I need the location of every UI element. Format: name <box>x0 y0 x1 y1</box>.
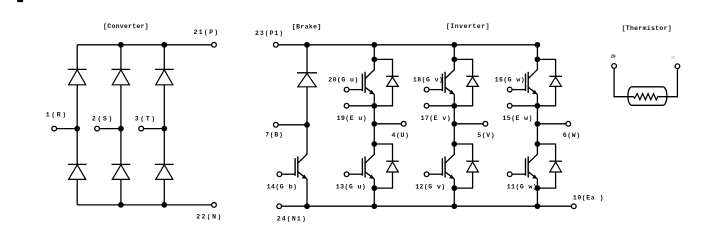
svg-text:19(E u): 19(E u) <box>337 115 367 122</box>
lower IGBT QV2 collector <box>445 144 454 163</box>
lower IGBT QW2 gate bar <box>525 158 527 176</box>
converter bottom bus wire (N) <box>77 204 211 206</box>
upper IGBT QW1 emitter stub <box>536 94 538 106</box>
svg-text:30: 30 <box>670 55 675 61</box>
svg-text:23(P1): 23(P1) <box>255 30 284 37</box>
terminal 10(Ea) <box>571 204 576 209</box>
terminal 13(G u) gate <box>344 172 349 177</box>
terminal 16(G w) gate <box>507 87 512 92</box>
upper IGBT QW1 gate bar <box>525 74 527 92</box>
upper IGBT QV1 emitter stub <box>453 94 455 106</box>
terminal 2(S) <box>95 126 100 131</box>
upper IGBT QV1 emitter arrow <box>449 90 454 94</box>
thermistor case outline <box>631 86 663 88</box>
wire lower gate lead leg 3 <box>512 173 525 175</box>
svg-text:22(N): 22(N) <box>196 214 223 221</box>
lower freewheel diode DW2 <box>549 161 562 172</box>
terminal 4(U) <box>401 121 406 126</box>
node dot B <box>304 122 310 128</box>
converter bottom diode D5 <box>112 164 131 179</box>
lower IGBT QV2 gate bar <box>441 158 443 176</box>
inverter leg 3 collector wire top <box>536 45 538 60</box>
upper IGBT QV1 emitter <box>445 87 454 94</box>
terminal 19(E u) emitter <box>344 103 349 108</box>
terminal 15(E w) emitter <box>507 103 512 108</box>
junction dot leg 1 lower collector node <box>371 141 377 147</box>
svg-text:7(B): 7(B) <box>265 132 283 139</box>
junction dot leg 2 lower emitter node <box>451 185 457 191</box>
wire brake gate lead <box>282 173 295 175</box>
junction dot leg 1 upper emitter node <box>371 103 377 109</box>
inverter leg 1 bottom wire <box>373 188 375 206</box>
terminal 11(G w) gate <box>507 172 512 177</box>
svg-text:10(Ea ): 10(Ea ) <box>573 195 604 202</box>
junction dot leg 1 lower emitter node <box>371 185 377 191</box>
wire upper gate lead leg 1 <box>349 89 362 91</box>
leg 3 upper diode branch wire <box>537 59 555 105</box>
svg-text:20(G u): 20(G u) <box>328 77 358 84</box>
lower IGBT QU2 collector <box>365 144 374 163</box>
lower IGBT QU2 emitter arrow <box>369 175 374 179</box>
lower freewheel diode DU2 <box>386 161 399 172</box>
terminal 18(G v) gate <box>424 87 429 92</box>
thermistor resistive element R(th) <box>634 94 659 100</box>
inverter leg 1 collector wire top <box>373 45 375 60</box>
terminal thermistor right <box>675 64 680 69</box>
junction dot leg 3 upper collector node <box>535 57 541 63</box>
junction dot leg 3 top bus <box>161 42 167 48</box>
inverter leg 3 mid wire <box>536 106 538 144</box>
brake diode <box>297 73 317 87</box>
terminal 12(G v) gate <box>424 172 429 177</box>
upper IGBT QU1 gate bar <box>361 74 363 92</box>
junction dot leg 1 bottom bus <box>371 203 377 209</box>
junction dot brake leg top <box>304 42 310 48</box>
lower IGBT QW2 emitter arrow <box>532 175 537 179</box>
junction dot leg 3 output node <box>535 121 541 127</box>
converter top diode D2 <box>112 69 131 84</box>
lower IGBT QU2 emitter stub <box>373 179 375 188</box>
svg-text:15(E w): 15(E w) <box>502 115 532 122</box>
upper IGBT QU1 emitter <box>365 87 374 94</box>
junction dot leg 1 upper collector node <box>371 57 377 63</box>
wire lower gate lead leg 1 <box>349 173 362 175</box>
converter top bus wire (P) <box>77 44 211 46</box>
lower IGBT QW2 emitter <box>528 172 537 179</box>
brake IGBT emitter arrow <box>302 175 307 179</box>
junction dot leg 2 bottom bus <box>451 203 457 209</box>
svg-text:12(G v): 12(G v) <box>415 184 445 191</box>
junction dot leg 2 upper emitter node <box>451 103 457 109</box>
svg-text:[Thermistor]: [Thermistor] <box>622 25 672 32</box>
lower IGBT QW2 emitter stub <box>536 179 538 188</box>
wire output node to terminal 6(W) <box>537 123 566 125</box>
terminal 21(P) <box>212 42 217 47</box>
junction dot leg 2 upper collector node <box>451 57 457 63</box>
svg-text:[Brake]: [Brake] <box>292 23 322 30</box>
upper IGBT QV1 collector <box>445 59 454 78</box>
leg 2 lower diode branch wire <box>454 144 472 188</box>
leg 1 upper diode branch wire <box>374 59 392 105</box>
converter top diode D1 <box>68 69 87 84</box>
upper IGBT QW1 emitter <box>528 87 537 94</box>
svg-text:4(U): 4(U) <box>392 132 410 139</box>
wire input 1(R) to leg 1 <box>57 128 78 130</box>
wire upper gate lead leg 3 <box>512 89 525 91</box>
svg-text:21(P): 21(P) <box>194 29 220 36</box>
brake IGBT gate bar <box>294 158 296 176</box>
junction dot leg 1 output node <box>371 121 377 127</box>
inverter leg 2 mid wire <box>453 106 455 144</box>
upper IGBT QV1 gate bar <box>441 74 443 92</box>
junction dot inverter leg 1 top bus <box>371 42 377 48</box>
brake leg upper wire <box>306 45 308 125</box>
upper IGBT QU1 body bar <box>364 72 366 93</box>
inverter leg 2 collector wire top <box>453 45 455 60</box>
svg-text:24(N1): 24(N1) <box>277 216 307 223</box>
wire input 2(S) to leg 2 <box>99 128 120 130</box>
terminal 17(E v) emitter <box>424 103 429 108</box>
inverter top bus wire (P1) <box>278 44 537 46</box>
leg 2 upper diode branch wire <box>454 59 472 105</box>
lower IGBT QW2 collector <box>528 144 537 163</box>
inverter leg 2 bottom wire <box>453 188 455 206</box>
upper IGBT QU1 emitter arrow <box>369 90 374 94</box>
thermistor left lead wire <box>614 68 634 96</box>
junction dot leg 2 output node <box>451 121 457 127</box>
lower IGBT QW2 body bar <box>527 156 529 177</box>
lower IGBT QV2 body bar <box>444 156 446 177</box>
terminal 22(N) <box>212 203 217 208</box>
converter bottom diode D4 <box>68 164 87 179</box>
svg-text:17(E v): 17(E v) <box>421 115 451 122</box>
lower IGBT QU2 gate bar <box>361 158 363 176</box>
converter bottom diode D6 <box>155 164 174 179</box>
terminal 5(V) <box>483 121 488 126</box>
lower freewheel diode DV2 <box>466 161 479 172</box>
brake IGBT emitter wire to N1 bus <box>306 179 308 206</box>
terminal thermistor left <box>612 64 617 69</box>
upper freewheel diode DV1 <box>466 76 479 86</box>
junction dot brake leg bottom <box>304 203 310 209</box>
wire upper emitter lead leg 2 <box>429 105 454 107</box>
svg-text:18(G v): 18(G v) <box>413 77 443 84</box>
node dot leg 3 mid <box>161 126 167 132</box>
junction dot leg 2 lower collector node <box>451 141 457 147</box>
wire upper gate lead leg 2 <box>429 89 442 91</box>
svg-text:[Inverter]: [Inverter] <box>446 23 490 30</box>
wire output node to terminal 4(U) <box>374 123 401 125</box>
inverter bottom bus wire (N1) <box>282 205 572 207</box>
junction dot leg 3 bottom bus <box>161 202 167 208</box>
svg-text:16(G w): 16(G w) <box>495 77 525 84</box>
upper IGBT QU1 emitter stub <box>373 94 375 106</box>
leg 3 lower diode branch wire <box>537 144 555 188</box>
upper IGBT QW1 emitter arrow <box>532 90 537 94</box>
wire output node to terminal 5(V) <box>454 123 483 125</box>
terminal 20(G u) gate <box>344 87 349 92</box>
brake IGBT body bar <box>297 156 299 177</box>
upper freewheel diode DW1 <box>549 76 562 86</box>
inverter leg 3 bottom wire <box>536 188 538 206</box>
terminal 14(G b) gate <box>277 172 282 177</box>
brake IGBT collector stub <box>298 125 307 163</box>
upper IGBT QW1 body bar <box>527 72 529 93</box>
stray mark top edge <box>17 0 23 2</box>
terminal 23(P1) <box>273 42 278 47</box>
wire lower gate lead leg 2 <box>429 173 442 175</box>
lower IGBT QV2 emitter stub <box>453 179 455 188</box>
svg-text:13(G u): 13(G u) <box>336 184 366 191</box>
wire upper emitter lead leg 1 <box>349 105 374 107</box>
inverter leg 1 mid wire <box>373 106 375 144</box>
junction dot inverter leg 3 top bus <box>535 42 541 48</box>
node dot leg 2 mid <box>118 126 124 132</box>
terminal 7(B) <box>273 122 278 127</box>
terminal 3(T) <box>139 126 144 131</box>
terminal 6(W) <box>566 121 571 126</box>
terminal 24(N1) <box>277 204 282 209</box>
junction dot leg 3 lower emitter node <box>535 185 541 191</box>
svg-text:[Converter]: [Converter] <box>103 23 149 30</box>
svg-text:3(T): 3(T) <box>135 115 157 122</box>
junction dot leg 3 lower collector node <box>535 141 541 147</box>
lower IGBT QU2 emitter <box>365 172 374 179</box>
junction dot leg 3 bottom bus <box>535 203 541 209</box>
junction dot leg 2 top bus <box>118 42 124 48</box>
svg-text:1(R): 1(R) <box>46 112 68 119</box>
svg-text:6(W): 6(W) <box>563 132 581 139</box>
wire input 3(T) to leg 3 <box>144 128 165 130</box>
svg-text:5(V): 5(V) <box>477 132 495 139</box>
svg-text:29: 29 <box>611 54 616 60</box>
converter leg 1 wire <box>76 45 78 205</box>
svg-text:14(G b): 14(G b) <box>267 184 298 191</box>
node dot leg 1 mid <box>74 126 80 132</box>
terminal 1(R) <box>52 126 57 131</box>
upper IGBT QU1 collector <box>365 59 374 78</box>
junction dot inverter leg 2 top bus <box>451 42 457 48</box>
lower IGBT QV2 emitter <box>445 172 454 179</box>
upper IGBT QV1 body bar <box>444 72 446 93</box>
upper freewheel diode DU1 <box>386 76 399 86</box>
junction dot leg 3 upper emitter node <box>535 103 541 109</box>
wire B node to terminal <box>278 124 307 126</box>
converter leg 3 wire <box>163 45 165 205</box>
brake IGBT emitter <box>298 172 307 179</box>
thermistor right lead wire <box>659 69 677 97</box>
junction dot leg 2 bottom bus <box>118 202 124 208</box>
converter leg 2 wire <box>120 45 122 205</box>
converter top diode D3 <box>155 69 174 84</box>
lower IGBT QV2 emitter arrow <box>449 175 454 179</box>
upper IGBT QW1 collector <box>528 59 537 78</box>
lower IGBT QU2 body bar <box>364 156 366 177</box>
svg-text:11(G w): 11(G w) <box>507 184 537 191</box>
leg 1 lower diode branch wire <box>374 144 392 188</box>
svg-text:2(S): 2(S) <box>92 115 114 122</box>
wire upper emitter lead leg 3 <box>512 105 537 107</box>
